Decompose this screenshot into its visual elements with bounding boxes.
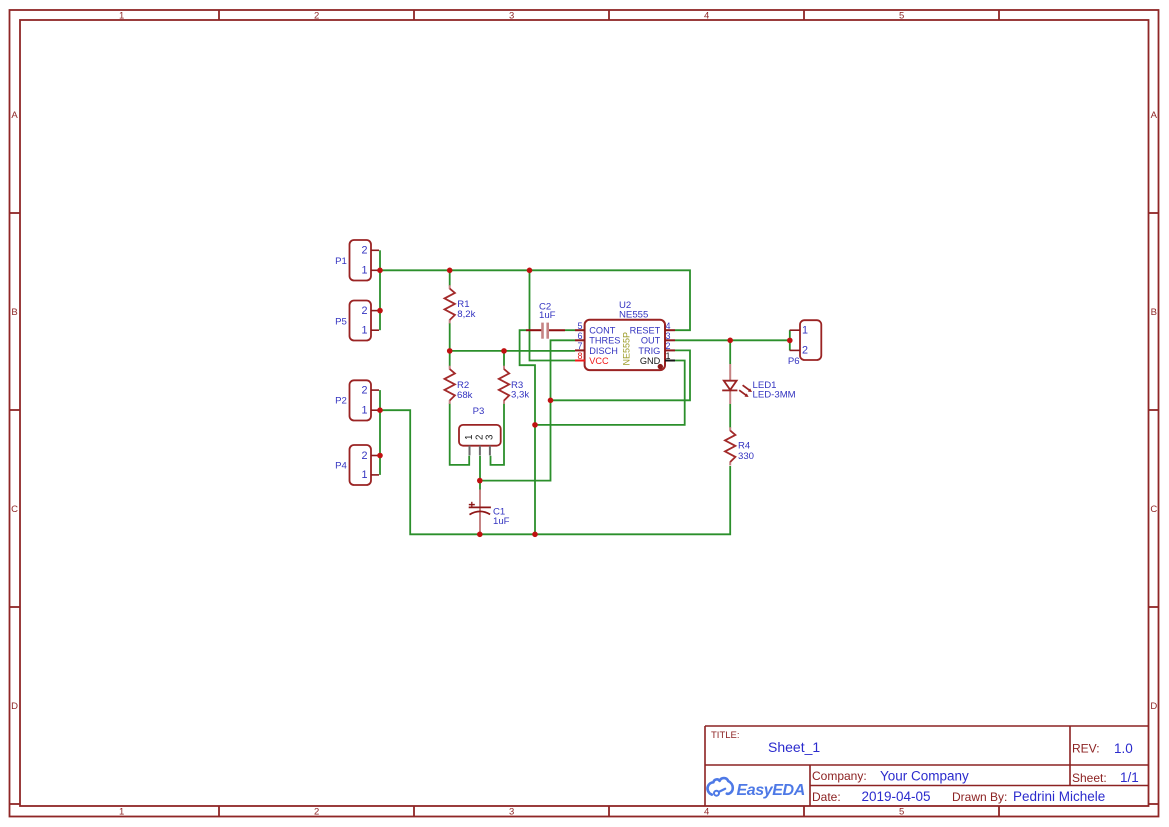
svg-text:5: 5 [899,807,904,818]
svg-text:5: 5 [577,321,582,331]
svg-text:2: 2 [361,305,367,317]
svg-text:EasyEDA: EasyEDA [737,782,805,799]
svg-text:Sheet_1: Sheet_1 [768,739,820,755]
svg-text:DISCH: DISCH [589,346,618,356]
svg-text:1: 1 [665,351,670,361]
svg-text:3,3k: 3,3k [511,390,529,401]
svg-text:4: 4 [704,807,709,818]
svg-text:8: 8 [577,351,582,361]
svg-text:1: 1 [119,10,124,21]
svg-text:P1: P1 [335,256,347,267]
svg-text:2: 2 [361,384,367,396]
svg-text:1: 1 [361,469,367,481]
svg-text:R4: R4 [738,441,751,452]
svg-text:TRIG: TRIG [638,346,660,356]
svg-text:D: D [11,701,18,712]
svg-text:A: A [11,110,18,121]
svg-text:68k: 68k [457,390,473,401]
svg-text:NE555: NE555 [619,309,648,320]
svg-text:1/1: 1/1 [1120,770,1139,785]
svg-text:LED-3MM: LED-3MM [753,390,796,401]
svg-text:A: A [1151,110,1158,121]
svg-text:GND: GND [640,356,661,366]
svg-text:2: 2 [314,807,319,818]
svg-text:CONT: CONT [589,326,615,336]
svg-text:OUT: OUT [641,336,661,346]
svg-text:1: 1 [361,265,367,277]
svg-text:B: B [1151,307,1157,318]
svg-text:6: 6 [577,331,582,341]
svg-text:VCC: VCC [589,356,609,366]
svg-text:4: 4 [704,10,709,21]
svg-text:REV:: REV: [1072,742,1100,756]
svg-text:RESET: RESET [630,326,661,336]
svg-text:8,2k: 8,2k [457,309,475,320]
svg-text:2: 2 [665,341,670,351]
svg-text:THRES: THRES [589,336,620,346]
svg-text:2: 2 [802,345,808,357]
svg-text:Sheet:: Sheet: [1072,771,1107,785]
svg-text:TITLE:: TITLE: [711,730,740,741]
svg-text:1: 1 [361,325,367,337]
svg-text:P5: P5 [335,317,347,328]
svg-text:B: B [11,307,17,318]
svg-text:P2: P2 [335,396,347,407]
svg-text:3: 3 [509,10,514,21]
svg-text:3: 3 [509,807,514,818]
svg-text:D: D [1150,701,1157,712]
svg-text:3: 3 [665,331,670,341]
svg-text:Pedrini Michele: Pedrini Michele [1013,789,1105,804]
svg-text:1: 1 [119,807,124,818]
svg-text:Date:: Date: [812,790,841,804]
svg-text:NE555P: NE555P [622,332,632,366]
svg-text:2: 2 [361,245,367,257]
svg-text:P4: P4 [335,461,347,472]
svg-text:3: 3 [485,434,496,440]
svg-text:330: 330 [738,451,754,462]
svg-text:Your Company: Your Company [880,769,969,784]
svg-text:C: C [11,504,18,515]
svg-text:4: 4 [665,321,670,331]
svg-text:1uF: 1uF [493,516,510,527]
svg-text:P3: P3 [473,406,485,417]
svg-text:1: 1 [802,325,808,337]
svg-text:2: 2 [361,450,367,462]
svg-text:P6: P6 [788,356,800,367]
svg-text:Company:: Company: [812,769,867,783]
svg-text:2019-04-05: 2019-04-05 [862,789,931,804]
svg-text:5: 5 [899,10,904,21]
svg-text:1: 1 [361,405,367,417]
svg-text:Drawn By:: Drawn By: [952,790,1007,804]
svg-text:1uF: 1uF [539,310,556,321]
svg-text:1.0: 1.0 [1114,741,1133,756]
svg-text:C: C [1150,504,1157,515]
svg-text:1: 1 [464,435,475,440]
svg-text:2: 2 [314,10,319,21]
svg-text:7: 7 [577,341,582,351]
